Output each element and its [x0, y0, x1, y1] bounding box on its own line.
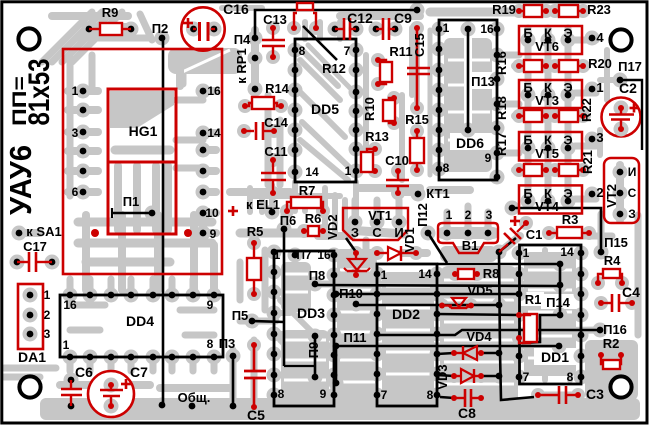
- svg-text:1: 1: [443, 21, 450, 35]
- svg-text:DA1: DA1: [18, 349, 46, 365]
- svg-text:П13: П13: [471, 74, 495, 89]
- svg-text:2: 2: [465, 208, 472, 222]
- svg-text:R18: R18: [494, 96, 509, 120]
- svg-text:П11: П11: [343, 330, 366, 345]
- svg-text:П4: П4: [234, 32, 251, 47]
- svg-text:14: 14: [418, 267, 432, 281]
- svg-text:10: 10: [205, 206, 219, 220]
- svg-text:R13: R13: [365, 129, 389, 144]
- svg-text:DD2: DD2: [392, 306, 420, 322]
- svg-text:C16: C16: [223, 1, 249, 17]
- svg-text:16: 16: [207, 84, 221, 98]
- svg-text:П9: П9: [306, 342, 321, 359]
- svg-text:7: 7: [344, 44, 351, 58]
- svg-text:8: 8: [427, 388, 434, 402]
- svg-text:2: 2: [596, 185, 603, 200]
- svg-text:R22: R22: [579, 98, 594, 122]
- svg-text:9: 9: [320, 387, 327, 401]
- svg-text:R6: R6: [305, 211, 322, 226]
- svg-text:VD1: VD1: [402, 227, 417, 252]
- svg-text:к RP1: к RP1: [234, 48, 249, 83]
- svg-text:П2: П2: [152, 21, 169, 36]
- svg-text:П5: П5: [232, 308, 249, 323]
- svg-text:Э: Э: [563, 80, 572, 95]
- svg-text:C9: C9: [394, 10, 412, 26]
- svg-text:УАУ6: УАУ6: [3, 145, 38, 215]
- svg-text:8: 8: [443, 161, 450, 175]
- svg-text:И: И: [628, 165, 637, 179]
- svg-text:Б: Б: [523, 80, 532, 95]
- svg-text:R20: R20: [588, 56, 612, 71]
- svg-text:R7: R7: [299, 183, 316, 198]
- svg-text:1: 1: [44, 288, 51, 302]
- svg-text:C11: C11: [264, 144, 287, 159]
- svg-text:DD3: DD3: [297, 305, 325, 321]
- svg-text:3: 3: [596, 130, 603, 145]
- svg-text:VD4: VD4: [466, 329, 492, 344]
- svg-text:C10: C10: [385, 153, 409, 168]
- svg-text:КТ1: КТ1: [426, 186, 449, 201]
- svg-text:8: 8: [567, 370, 574, 384]
- svg-text:З: З: [351, 225, 359, 240]
- svg-text:DD6: DD6: [456, 135, 484, 151]
- svg-text:14: 14: [560, 245, 574, 259]
- svg-text:2: 2: [44, 308, 51, 322]
- svg-text:П3: П3: [219, 336, 236, 351]
- svg-text:R21: R21: [580, 150, 595, 174]
- svg-text:9: 9: [207, 298, 214, 312]
- svg-text:1: 1: [381, 268, 388, 282]
- svg-text:DD1: DD1: [541, 349, 569, 365]
- svg-text:VT4: VT4: [535, 199, 560, 214]
- svg-text:14: 14: [305, 165, 319, 179]
- svg-text:VT6: VT6: [535, 39, 559, 54]
- svg-text:C7: C7: [130, 364, 148, 380]
- svg-text:П16: П16: [603, 322, 627, 337]
- svg-text:П15: П15: [604, 235, 628, 250]
- svg-text:Общ.: Общ.: [178, 390, 211, 405]
- svg-text:R9: R9: [102, 5, 119, 20]
- svg-text:Б: Б: [523, 26, 532, 41]
- svg-text:П7: П7: [296, 248, 312, 262]
- svg-text:VT3: VT3: [535, 93, 559, 108]
- svg-text:3: 3: [72, 126, 79, 140]
- svg-text:К: К: [544, 26, 552, 41]
- svg-text:16: 16: [317, 248, 331, 262]
- svg-text:1: 1: [63, 338, 70, 352]
- svg-text:П6: П6: [280, 213, 297, 228]
- svg-text:16: 16: [480, 22, 494, 36]
- svg-text:R17: R17: [494, 132, 509, 156]
- svg-text:9: 9: [485, 151, 492, 165]
- svg-text:R8: R8: [483, 266, 500, 281]
- svg-text:1: 1: [446, 208, 453, 222]
- svg-text:C4: C4: [622, 284, 640, 300]
- svg-text:7: 7: [381, 388, 388, 402]
- svg-text:VT1: VT1: [368, 208, 392, 223]
- svg-text:Э: Э: [563, 26, 572, 41]
- svg-text:1: 1: [345, 164, 352, 178]
- svg-text:R16: R16: [494, 51, 509, 75]
- svg-text:DD5: DD5: [311, 101, 339, 117]
- svg-text:Э: Э: [563, 186, 572, 201]
- svg-text:С: С: [628, 186, 637, 200]
- svg-text:В1: В1: [462, 238, 479, 253]
- svg-text:R19: R19: [492, 2, 516, 17]
- svg-text:П8: П8: [309, 268, 326, 283]
- svg-text:8: 8: [299, 44, 306, 58]
- svg-text:1: 1: [72, 84, 79, 98]
- svg-text:C13: C13: [263, 12, 287, 27]
- svg-text:C3: C3: [586, 386, 604, 402]
- svg-text:к EL1: к EL1: [246, 197, 280, 212]
- svg-text:к SA1: к SA1: [26, 224, 61, 239]
- svg-text:6: 6: [72, 185, 79, 199]
- svg-text:VD5: VD5: [467, 283, 492, 298]
- svg-text:8: 8: [278, 387, 285, 401]
- svg-text:C15: C15: [412, 33, 427, 57]
- svg-text:R2: R2: [603, 336, 620, 351]
- svg-text:3: 3: [486, 208, 493, 222]
- svg-text:4: 4: [596, 30, 604, 45]
- svg-text:П14: П14: [546, 295, 571, 310]
- svg-text:C6: C6: [75, 364, 93, 380]
- svg-text:C14: C14: [264, 115, 289, 130]
- svg-text:14: 14: [207, 126, 221, 140]
- svg-text:R11: R11: [389, 44, 412, 59]
- svg-text:3: 3: [44, 327, 51, 341]
- svg-text:VT5: VT5: [535, 146, 559, 161]
- svg-text:C12: C12: [347, 10, 373, 26]
- svg-text:C17: C17: [23, 239, 47, 254]
- svg-text:16: 16: [63, 298, 77, 312]
- svg-text:VT2: VT2: [604, 184, 619, 208]
- svg-text:R10: R10: [362, 97, 377, 121]
- svg-text:R1: R1: [525, 292, 542, 307]
- svg-text:DD4: DD4: [126, 313, 154, 329]
- svg-text:C5: C5: [247, 407, 265, 423]
- svg-text:R5: R5: [247, 224, 264, 239]
- svg-text:С: С: [372, 225, 382, 240]
- svg-text:R23: R23: [587, 2, 611, 17]
- svg-text:HG1: HG1: [129, 123, 158, 139]
- svg-text:Б: Б: [523, 186, 532, 201]
- svg-text:П10: П10: [339, 286, 363, 301]
- svg-text:C1: C1: [526, 227, 543, 242]
- svg-text:C2: C2: [619, 80, 637, 96]
- svg-text:К: К: [544, 80, 552, 95]
- svg-text:VD3: VD3: [435, 364, 450, 389]
- svg-text:81x53: 81x53: [23, 59, 56, 126]
- svg-text:R14: R14: [265, 81, 290, 96]
- svg-text:8: 8: [207, 337, 214, 351]
- svg-text:R15: R15: [405, 112, 429, 127]
- svg-text:VD2: VD2: [325, 214, 340, 239]
- svg-text:З: З: [628, 207, 636, 221]
- svg-text:Б: Б: [523, 133, 532, 148]
- svg-text:П17: П17: [618, 59, 642, 74]
- svg-text:9: 9: [210, 227, 217, 241]
- svg-text:П12: П12: [415, 203, 430, 227]
- svg-text:1: 1: [523, 246, 530, 260]
- svg-text:К: К: [544, 186, 552, 201]
- svg-text:7: 7: [523, 370, 530, 384]
- svg-text:R12: R12: [322, 61, 346, 76]
- svg-text:К: К: [544, 133, 552, 148]
- svg-text:П1: П1: [123, 194, 140, 209]
- svg-text:R3: R3: [562, 212, 579, 227]
- svg-text:1: 1: [274, 248, 281, 262]
- svg-text:1: 1: [596, 80, 603, 95]
- svg-text:C8: C8: [458, 405, 476, 421]
- svg-text:Э: Э: [563, 133, 572, 148]
- svg-text:R4: R4: [604, 253, 621, 268]
